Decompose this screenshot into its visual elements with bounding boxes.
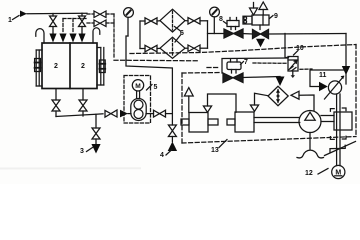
arrow flow down right (342, 66, 350, 75)
wire dashed drop C (72, 19, 74, 34)
svg-text:2: 2 (81, 63, 85, 70)
shaft M5 to pump (136, 91, 138, 99)
arrow into tank C (69, 34, 76, 43)
wire dashed pilot down (113, 14, 115, 59)
valve V7 (223, 73, 243, 83)
drain valve left (52, 89, 60, 117)
valve column 4 (168, 125, 176, 137)
wire main pressure line (208, 33, 225, 35)
wire dashed pilot lower (87, 22, 94, 24)
wire rail upper (222, 58, 288, 73)
pump main (299, 111, 321, 133)
suction strainer (297, 133, 324, 158)
svg-text:2: 2 (54, 63, 58, 70)
valve filter bottom-in (140, 48, 145, 50)
level gauge left (35, 50, 42, 86)
valve distribution 4way (253, 30, 269, 39)
arrow fill cyl B (250, 93, 268, 111)
check valve (291, 91, 299, 99)
wire check to pump (299, 95, 314, 111)
arrow fill cyl A (203, 94, 236, 112)
valve V8 (224, 29, 234, 38)
tank T1 (42, 43, 97, 89)
arrow drain distribution (256, 39, 265, 47)
gauge G1 (124, 8, 134, 36)
wire dashed pilot 10 left (253, 62, 286, 64)
wire gauge supply (126, 36, 172, 125)
gearbox (334, 112, 352, 130)
drain valve right (79, 89, 87, 116)
motor M5 (132, 80, 143, 91)
valve pump outlet (154, 110, 166, 117)
valve tank-fill right (79, 13, 86, 33)
filter manifold right (207, 21, 209, 48)
wire main right drop (345, 34, 347, 85)
arrow inlet 4 (168, 142, 177, 152)
wire dashed pilot upper (87, 13, 94, 15)
scan streak (0, 167, 140, 169)
filter F1 (160, 9, 185, 32)
relief valve 9 (243, 2, 269, 30)
accumulator 7 (227, 59, 241, 73)
node 1 inlet arrow (13, 11, 28, 20)
valve filter top-out (188, 18, 200, 25)
coupling claw top (330, 108, 346, 111)
wire suction pipes (254, 117, 300, 119)
filter F2 (160, 37, 185, 58)
svg-text:M: M (335, 170, 341, 177)
breather cyl A (184, 88, 193, 113)
arrow into tank D (78, 34, 85, 43)
breather gooseneck right (93, 28, 100, 43)
svg-text:8: 8 (219, 16, 223, 23)
arrow into motor 11 (319, 82, 328, 92)
svg-text:4: 4 (160, 152, 164, 159)
wire drain manifold (56, 114, 103, 117)
svg-text:5: 5 (154, 84, 158, 91)
breather gooseneck left (36, 29, 44, 43)
valve suction (105, 110, 117, 117)
enclosure pump unit 5 (124, 76, 151, 124)
arrow outlet 3 (91, 144, 100, 154)
arrow into tank B (59, 34, 66, 43)
wire dashed pilot 10 right (300, 68, 312, 70)
wire to motor 11 (310, 70, 346, 87)
wire branch to 10 (285, 34, 289, 58)
pump gear unit (131, 99, 146, 121)
wire pump outlet (146, 113, 154, 115)
gauge G2 (210, 7, 220, 33)
wire top supply (27, 12, 87, 15)
svg-text:9: 9 (274, 13, 278, 20)
enclosure 13 dashed (114, 45, 356, 144)
svg-text:1: 1 (8, 17, 12, 24)
svg-text:13: 13 (211, 147, 219, 154)
valve pilot upper (94, 11, 106, 18)
svg-text:7: 7 (244, 59, 248, 66)
wire drain branch 3 (95, 114, 97, 128)
valve filter bottom-out (188, 45, 200, 52)
valve tank-fill left (50, 14, 57, 34)
svg-text:11: 11 (319, 72, 327, 79)
arrow into filter 13 (276, 77, 285, 87)
coupling claw below (330, 136, 346, 139)
shaft lines (321, 94, 340, 166)
wire dashed link (63, 18, 88, 20)
motor 11 (325, 76, 345, 99)
pressure valve 10 (288, 57, 298, 79)
wire dashed drop B (62, 19, 64, 34)
level gauge right (97, 48, 105, 86)
svg-text:M: M (135, 83, 141, 90)
valve drain 3 (92, 128, 100, 139)
arrow into pump unit (120, 110, 128, 118)
filter manifold left (139, 21, 141, 49)
wire rail lower (243, 77, 280, 78)
accumulator 8 (227, 18, 239, 30)
svg-text:12: 12 (305, 170, 313, 177)
filter bypass diamond (268, 86, 288, 105)
valve filter top-in (140, 20, 145, 22)
svg-text:3: 3 (80, 148, 84, 155)
valve pilot lower (94, 20, 106, 27)
coupling flange (325, 142, 356, 156)
cylinder A (181, 113, 218, 133)
arrow into tank A (49, 34, 56, 43)
cylinder B (227, 112, 254, 132)
motor M12 (332, 165, 345, 178)
